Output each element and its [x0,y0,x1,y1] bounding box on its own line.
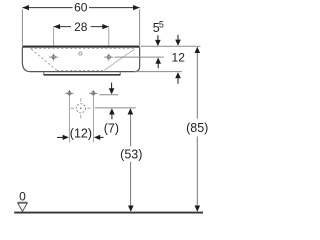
washbasin bottom ledge [44,72,120,74]
svg-text:0: 0 [19,190,26,204]
reference line hole level right [115,56,164,58]
dim 7 up arrow [109,108,115,119]
reference line drain level detail [95,107,136,109]
dim 5.5 down arrow [155,35,161,46]
svg-text:(12): (12) [70,126,92,140]
svg-text:5: 5 [159,19,164,29]
extension line left hole [53,28,55,54]
dim (12) left arrow [57,135,69,140]
svg-text:(7): (7) [104,122,119,136]
bowl right diagonal [104,49,135,70]
drain hole center line right [88,107,91,109]
dim (85) line lower [196,136,198,211]
dimension 28 left arrow [54,24,61,29]
detail view left hole crosshair [65,90,73,97]
dim (53) line upper [130,109,132,146]
svg-text:28: 28 [74,20,88,34]
right faucet hole crosshair [104,54,113,61]
dimension 60 left arrow [22,5,29,10]
reference line holes level detail [100,94,119,96]
bowl left dashed diagonal [31,49,57,70]
washbasin bottom ledge dark bar [44,74,121,76]
floor zero underline [17,201,27,203]
extension line left of 60 [21,10,23,46]
dimension 28 right arrow [102,24,109,29]
extension line right hole [108,28,110,54]
extension line right of 60 [139,10,141,46]
dim (53) line lower [130,162,132,211]
dim (85) bottom arrow [195,206,201,212]
dim 12 down arrow [175,35,181,46]
dim (53) bottom arrow [128,206,134,212]
svg-text:(53): (53) [120,147,142,161]
floor line [14,212,203,214]
svg-text:12: 12 [172,51,186,65]
svg-text:(85): (85) [186,121,208,135]
bowl bottom dashed line [57,69,104,71]
inner rim dashed line [30,47,136,49]
extension line detail right hole [92,97,94,143]
svg-text:60: 60 [74,1,88,15]
washbasin top edge [23,46,140,48]
reference line bottom edge right [134,71,182,73]
drain hole center line left [71,107,75,109]
dim (53) top arrow [128,108,134,114]
reference line top edge right [141,45,201,47]
dim 7 down arrow [109,83,115,95]
washbasin outline [22,46,139,71]
dimension 60 line [22,7,139,9]
dim (85) line upper [196,47,198,119]
detail view right hole crosshair [89,90,97,97]
floor zero triangle [18,203,27,211]
dim (12) right arrow [94,135,104,140]
dimension 60 right arrow [133,5,140,10]
drain hole center dot [80,107,82,109]
drain hole dashed circle [76,104,85,113]
left faucet hole crosshair [49,54,58,61]
drain hole center line up [80,98,82,101]
dim (85) top arrow [195,47,201,53]
dim 5.5 up arrow [155,58,161,69]
dimension 28 line [54,26,109,28]
overflow hole [79,52,82,55]
dim 12 up arrow [175,72,181,84]
extension line detail left hole [68,97,70,143]
drain hole center line down [80,115,82,118]
